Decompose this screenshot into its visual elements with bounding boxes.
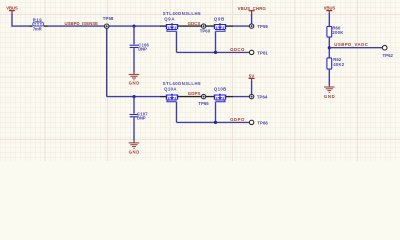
svg-text:Q10B: Q10B xyxy=(214,86,226,91)
wire R19 right pin stub xyxy=(44,25,48,27)
svg-text:TP62: TP62 xyxy=(383,53,394,58)
power port VBUS (left) xyxy=(6,5,18,13)
svg-text:Q9A: Q9A xyxy=(164,17,174,22)
wire R60 to R62 xyxy=(328,37,330,58)
svg-text:TP58: TP58 xyxy=(103,16,114,21)
transistor Q9A xyxy=(166,23,178,31)
test point TP58 xyxy=(103,16,114,28)
wire TP58 drop to row 2 xyxy=(106,26,108,97)
ground GND (under C106) xyxy=(129,72,140,85)
wire VBUS to R19 xyxy=(12,13,30,26)
wire VADC to TP62 xyxy=(329,47,382,49)
capacitor C107 xyxy=(130,111,149,120)
svg-text:STL40DN3LLH5: STL40DN3LLH5 xyxy=(163,11,201,16)
test point TP62 xyxy=(382,45,393,58)
wire Q10A drain stub xyxy=(160,96,166,98)
svg-text:VBUS: VBUS xyxy=(324,5,336,10)
junction C107 node xyxy=(132,95,135,98)
svg-text:TP59: TP59 xyxy=(257,24,268,29)
svg-text:40K2: 40K2 xyxy=(333,62,345,67)
wire junction to C106 xyxy=(133,26,135,44)
svg-text:TP66: TP66 xyxy=(257,121,268,126)
wire C106 to GND xyxy=(133,48,135,72)
transistor Q10B xyxy=(214,94,226,102)
wire junction to C107 xyxy=(133,97,135,114)
resistor R62 xyxy=(327,57,345,69)
test point TP66 xyxy=(249,120,268,125)
power port 5V xyxy=(249,73,255,81)
power port VBUS_CHRG xyxy=(238,6,267,14)
wire R62 to GND xyxy=(328,69,330,85)
svg-text:TP65: TP65 xyxy=(198,101,209,106)
ground GND (right) xyxy=(324,85,335,99)
svg-text:DNP: DNP xyxy=(138,47,147,52)
svg-text:VBUS_CHRG: VBUS_CHRG xyxy=(238,6,267,11)
svg-text:GND: GND xyxy=(129,150,140,155)
wire row2 input xyxy=(107,96,160,98)
svg-text:5V: 5V xyxy=(249,73,255,78)
svg-text:GDCS: GDCS xyxy=(188,21,201,26)
ground GND (under C107) xyxy=(129,141,140,155)
svg-text:TP60: TP60 xyxy=(200,29,211,34)
junction gate bus xyxy=(214,51,217,54)
svg-text:7mR: 7mR xyxy=(33,26,43,31)
test point TP61 xyxy=(249,50,268,55)
svg-text:Q10A: Q10A xyxy=(164,86,176,91)
wire TP64 to 5V xyxy=(251,81,253,96)
test point TP59 xyxy=(249,24,268,29)
wire Q9B gate drop xyxy=(215,31,217,52)
transistor Q10A xyxy=(166,94,178,102)
wire VBUS to R60 xyxy=(328,13,330,26)
test point TP64 xyxy=(249,94,268,99)
test point TP60 xyxy=(200,24,211,34)
junction VADC node xyxy=(328,46,331,49)
wire Q10A gate drop xyxy=(176,102,178,123)
svg-text:R19: R19 xyxy=(33,17,43,22)
wire Q10B gate drop xyxy=(215,102,217,123)
wire gate bus GDPO xyxy=(177,121,250,123)
resistor R19 xyxy=(33,22,44,26)
wire Q9A to Q9B (GDCS segment) xyxy=(178,25,214,27)
svg-text:GDCO: GDCO xyxy=(230,47,245,52)
svg-text:GND: GND xyxy=(129,80,140,85)
wire C107 to GND xyxy=(133,117,135,140)
svg-text:GDPS: GDPS xyxy=(188,91,201,96)
wire Q10B source stub xyxy=(226,96,233,98)
svg-text:TP64: TP64 xyxy=(257,94,268,99)
wire R19 left pin stub xyxy=(30,25,33,27)
junction gate bus 2 xyxy=(214,121,217,124)
svg-text:Q9B: Q9B xyxy=(214,17,224,22)
svg-text:GND: GND xyxy=(324,94,335,99)
wire gate bus GDCO xyxy=(177,51,250,53)
svg-text:TP61: TP61 xyxy=(257,51,268,56)
wire TP59 to VBUS_CHRG xyxy=(251,13,253,25)
transistor Q9B xyxy=(214,23,226,31)
svg-text:GDPO: GDPO xyxy=(230,117,245,122)
svg-text:STL40DN3LLH5: STL40DN3LLH5 xyxy=(163,81,201,86)
wire Q10A to Q10B (GDPS segment) xyxy=(178,96,214,98)
wire Q9B to TP59 xyxy=(233,25,249,27)
test point TP65 xyxy=(198,94,209,106)
resistor R60 xyxy=(327,26,344,37)
capacitor C106 xyxy=(130,42,150,51)
wire Q10B to TP64 xyxy=(233,96,249,98)
wire Q9A gate drop xyxy=(176,31,178,52)
junction C106 node xyxy=(132,25,135,28)
wire Q9B source stub xyxy=(226,25,233,27)
svg-text:DNP: DNP xyxy=(137,116,146,121)
svg-text:USBPD_ISENSE: USBPD_ISENSE xyxy=(65,21,99,26)
power port VBUS (right) xyxy=(324,5,336,13)
svg-text:200K: 200K xyxy=(332,30,344,35)
svg-text:VBUS: VBUS xyxy=(6,5,18,10)
svg-text:USBPD_VADC: USBPD_VADC xyxy=(334,42,368,47)
wire Q9A drain stub xyxy=(160,25,166,27)
wire R19 to Q9A xyxy=(48,25,161,27)
